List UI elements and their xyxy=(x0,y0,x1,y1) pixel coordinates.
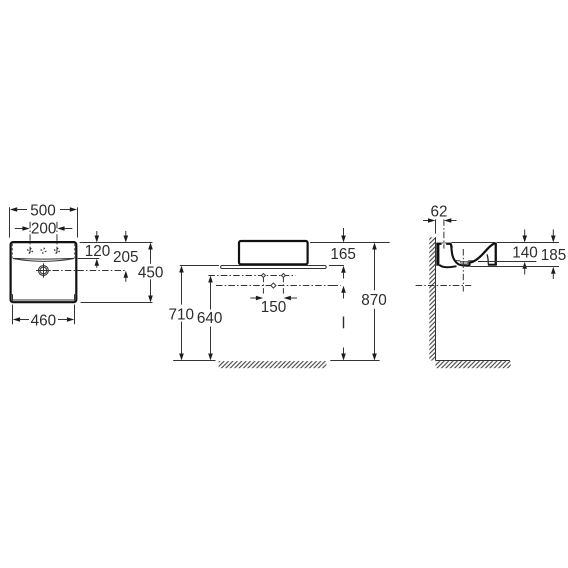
svg-text:185: 185 xyxy=(541,247,567,264)
right view: drain axis horizontal dash-dot xyxy=(416,285,472,287)
svg-text:200: 200 xyxy=(31,221,57,238)
front view: drain axis dash-dot to the right xyxy=(53,270,127,272)
svg-text:640: 640 xyxy=(197,310,223,327)
front view: drain outer circle xyxy=(39,266,49,276)
dim 460: left extension line xyxy=(12,305,14,325)
unlabeled drain-to-floor dimension: up arrow xyxy=(341,286,346,293)
dim 140: bottom extension line xyxy=(478,261,536,263)
dim 120: down arrow a xyxy=(96,231,98,236)
dim 870: dimension line xyxy=(374,249,376,290)
svg-text:165: 165 xyxy=(330,246,356,263)
right view: front outer wall xyxy=(495,243,497,266)
svg-text:450: 450 xyxy=(138,265,164,282)
dim 150: left arrow xyxy=(250,297,256,299)
right view: floor line xyxy=(436,360,510,362)
right view: bowl inner bottom thin line left of drain xyxy=(455,259,460,262)
dim 710: top extension line xyxy=(180,265,219,267)
right view: bowl front sweep curve xyxy=(469,243,495,267)
dim 140: down arrow xyxy=(524,230,526,237)
front view: drain crosshair horizontal xyxy=(36,270,51,272)
dim 165: down arrow xyxy=(343,228,345,236)
middle view: fixing hole right diamond xyxy=(281,274,285,278)
svg-text:120: 120 xyxy=(85,243,111,260)
dim 460: right extension line xyxy=(74,305,76,325)
right view: floor hatching xyxy=(436,361,511,368)
right view: front inner edge xyxy=(487,254,488,264)
front view: drain inner circle xyxy=(40,267,47,274)
front view: faucet hole left xyxy=(27,248,33,254)
front view: inner side edge bottom-right xyxy=(74,295,76,301)
right view: basin back mounting bar xyxy=(436,243,439,266)
middle view: countertop slab xyxy=(221,266,327,269)
unlabeled drain-to-floor dimension: down arrow xyxy=(343,348,345,354)
dim 500: left arrow xyxy=(10,207,17,211)
middle view: fixing hole right axis vertical xyxy=(282,276,284,294)
dim 460: left arrow xyxy=(13,317,20,321)
dim 200: right arrow xyxy=(57,226,64,230)
middle view: drain diamond xyxy=(271,283,276,288)
dim 165: up arrow xyxy=(341,266,346,273)
svg-text:205: 205 xyxy=(113,249,139,266)
front view: hidden deck edge left (dashed) xyxy=(11,244,13,258)
dim 120: bottom line xyxy=(78,258,99,260)
dim 500: left extension line xyxy=(9,207,11,237)
front view: faucet hole right xyxy=(54,248,60,254)
middle view: floor line left segment xyxy=(173,360,215,362)
middle view: fixing holes axis dash-dot xyxy=(208,275,295,277)
dim 710: dimension line xyxy=(181,272,183,305)
right view: faucet axis dash-dot xyxy=(443,219,445,248)
front view: basin outer outline xyxy=(11,242,77,302)
dim 710: down arrow xyxy=(179,354,184,361)
dim 62: wall face extension line xyxy=(435,219,437,233)
middle view: fixing hole left diamond xyxy=(261,274,265,278)
right view: wall hatching xyxy=(429,237,435,360)
middle view: drain axis dash-dot xyxy=(216,285,341,287)
dim 185: down arrow xyxy=(552,230,554,237)
front view: inner bottom edge xyxy=(12,299,75,301)
dim 200: left arrow xyxy=(22,226,29,230)
unlabeled drain-to-floor dimension: middle dash xyxy=(343,317,345,329)
right view: deck inner lip shading xyxy=(450,245,453,248)
right view: drain axis vertical dash-dot xyxy=(462,249,464,292)
front view: faucet hole centre xyxy=(40,248,46,254)
right view: bowl inner bottom right of drain xyxy=(468,260,473,262)
dim 62: left arrow xyxy=(423,220,429,222)
front view: tick bottom-right xyxy=(75,294,77,296)
svg-text:500: 500 xyxy=(30,202,56,219)
svg-text:710: 710 xyxy=(169,306,195,323)
dim 165: top extension line xyxy=(310,242,390,244)
middle view: fixing hole left axis vertical xyxy=(262,276,264,294)
right view: rim back edge thin line xyxy=(452,242,495,244)
dim 450: up arrow xyxy=(148,243,153,250)
right view: overflow channel bottom curve xyxy=(439,265,456,267)
dim 200: left dash-dot axis xyxy=(29,222,31,255)
svg-text:140: 140 xyxy=(512,245,538,262)
dim 870: down arrow xyxy=(372,354,377,361)
dim 140: up arrow xyxy=(522,262,527,269)
svg-text:150: 150 xyxy=(261,299,287,316)
dim 200: right dash-dot axis xyxy=(56,222,58,255)
right view: bowl inner back hook curve xyxy=(451,244,470,266)
front view: drain crosshair vertical xyxy=(43,263,45,277)
front view: hidden deck edge right (dashed) xyxy=(74,244,76,258)
dims 140/185: top extension line xyxy=(497,242,559,244)
dim 500: right arrow xyxy=(70,207,77,211)
right view: wall face line xyxy=(435,237,437,360)
right view: front bottom lip xyxy=(488,264,497,266)
middle view: drain axis right dash-dot stub xyxy=(331,285,340,287)
front view: basin inner top curve lower line xyxy=(13,259,74,262)
dim 450: down arrow xyxy=(148,296,153,303)
dim 460: right arrow xyxy=(67,317,74,321)
right view: deck with faucet hole xyxy=(436,243,451,245)
front view: basin inner top curve upper line xyxy=(13,257,74,260)
dim 640: dimension line xyxy=(210,283,212,310)
dim 185: bottom extension line xyxy=(471,266,560,268)
dim 185: up arrow xyxy=(551,267,556,274)
dim 205: down arrow b xyxy=(125,231,127,236)
front view: tick bottom-left xyxy=(10,294,12,296)
right dims: bottom extension line xyxy=(81,302,153,304)
svg-text:62: 62 xyxy=(430,204,447,221)
dim 150: right arrow xyxy=(284,296,291,300)
dim 62: right arrow xyxy=(444,218,451,222)
front view: inner side edge bottom-left xyxy=(12,295,14,301)
dim 450: dimension line xyxy=(150,249,152,264)
dim 640: up arrow xyxy=(208,276,213,283)
dim 205: up arrow xyxy=(124,271,129,278)
right dims: top extension line xyxy=(80,242,153,244)
svg-text:460: 460 xyxy=(31,312,57,329)
dim 120: up arrow xyxy=(95,259,100,266)
dim 710: up arrow xyxy=(179,266,184,273)
middle view: basin profile outline xyxy=(239,241,308,264)
right view: drain fitting (grey) xyxy=(460,261,468,264)
svg-text:870: 870 xyxy=(361,292,387,309)
middle view: floor line right segment xyxy=(330,360,379,362)
dim 500: right extension line xyxy=(77,207,79,237)
dim 165: bottom extension line xyxy=(329,265,344,267)
middle view: floor hatching xyxy=(219,361,327,368)
dim 870: up arrow xyxy=(372,243,377,250)
dim 640: down arrow xyxy=(208,354,213,361)
